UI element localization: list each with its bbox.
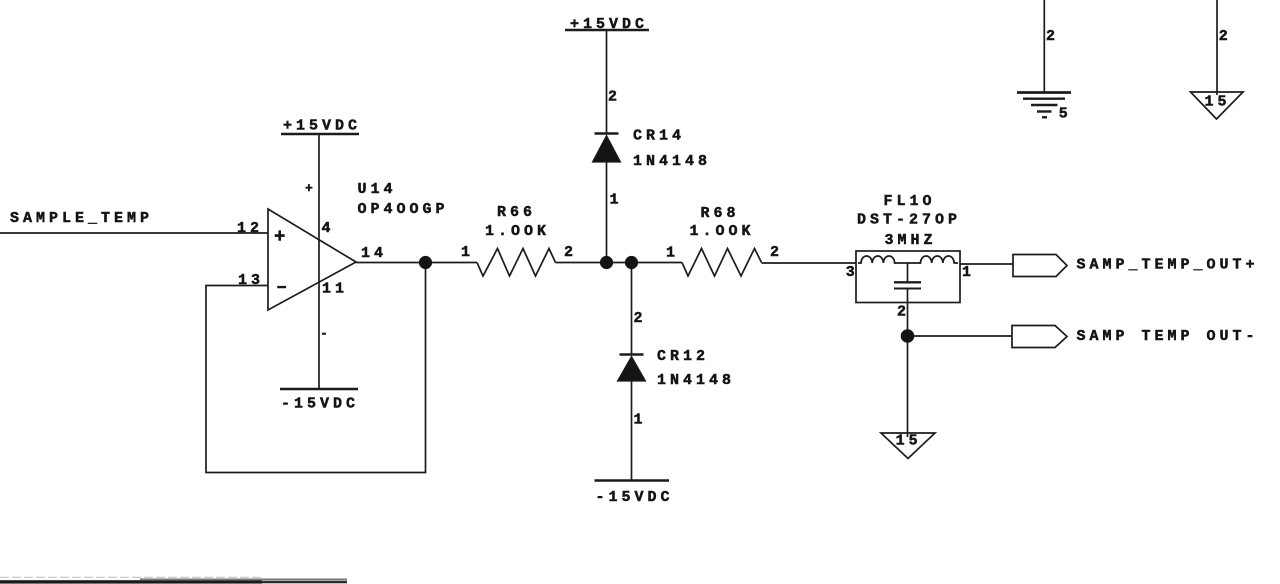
wire CR14 anode down to node xyxy=(606,162,608,263)
svg-text:1: 1 xyxy=(666,245,679,262)
power +15VDC bar (CR14) xyxy=(565,29,649,32)
svg-text:SAMP TEMP OUT-: SAMP TEMP OUT- xyxy=(1077,328,1259,345)
svg-text:+: + xyxy=(305,181,313,196)
wire CR12 anode to -15VDC xyxy=(631,381,633,481)
scan artifact: faint line bottom left xyxy=(0,576,262,578)
power triangle 15 (below FL10) xyxy=(881,433,935,459)
inductor coil 2 inside FL10 xyxy=(920,256,959,263)
svg-text:FL1O: FL1O xyxy=(884,193,936,210)
capacitor plate bottom xyxy=(894,288,921,290)
resistor R66 zigzag xyxy=(477,249,556,277)
diode CR14 triangle xyxy=(593,136,621,163)
wire FL10 pin1 to connector xyxy=(960,263,1013,265)
svg-text:1: 1 xyxy=(461,244,474,261)
wire +15VDC to CR14 cathode xyxy=(606,30,608,134)
svg-text:+15VDC: +15VDC xyxy=(283,118,361,135)
wire between coils and capacitor stub xyxy=(896,262,921,264)
connector SAMP TEMP OUT- pentagon xyxy=(1012,326,1067,348)
wire feedback loop output to inverting input xyxy=(206,263,426,473)
wire op-amp output to node xyxy=(356,262,477,264)
resistor R68 zigzag xyxy=(682,249,762,277)
wire R68 pin2 to FL10 pin3 xyxy=(762,262,857,264)
power triangle 15 (top right) xyxy=(1191,92,1244,119)
svg-text:13: 13 xyxy=(238,272,264,289)
capacitor stub top xyxy=(907,263,909,282)
connector SAMP_TEMP_OUT+ pentagon xyxy=(1013,255,1067,277)
svg-text:DST-27OP: DST-27OP xyxy=(857,212,961,229)
ground 5 bars xyxy=(1017,93,1071,118)
wire top to ground 5 xyxy=(1043,0,1045,93)
wire node to connector SAMP TEMP OUT- xyxy=(908,335,1013,337)
node junction dot CR14 xyxy=(600,256,613,269)
diode CR14 cathode bar xyxy=(595,132,619,135)
wire top to power triangle 15 (top right) xyxy=(1216,0,1218,95)
svg-text:-: - xyxy=(320,326,328,341)
svg-text:15: 15 xyxy=(896,433,922,450)
svg-text:SAMPLE_TEMP: SAMPLE_TEMP xyxy=(10,210,153,227)
svg-text:2: 2 xyxy=(608,89,621,106)
svg-text:R66: R66 xyxy=(497,204,536,221)
svg-text:3MHZ: 3MHZ xyxy=(885,232,937,249)
svg-text:-15VDC: -15VDC xyxy=(281,396,359,413)
wire op-amp power vertical xyxy=(318,134,320,389)
op-amp U1 4 triangle xyxy=(268,209,356,310)
power +15VDC bar (op-amp) xyxy=(281,133,359,136)
svg-text:1: 1 xyxy=(610,192,623,209)
svg-text:+15VDC: +15VDC xyxy=(570,16,648,33)
svg-text:1: 1 xyxy=(634,412,647,429)
scan artifact: thin line bottom xyxy=(140,578,347,580)
svg-text:2: 2 xyxy=(1219,28,1232,45)
svg-text:OP4OOGP: OP4OOGP xyxy=(358,201,449,218)
svg-text:1N4148: 1N4148 xyxy=(633,153,711,170)
svg-text:CR12: CR12 xyxy=(657,348,709,365)
svg-text:4: 4 xyxy=(322,220,335,237)
scan artifact: dark bar bottom left xyxy=(0,580,262,583)
wire SAMPLE_TEMP input to pin 12 xyxy=(0,232,268,234)
svg-text:11: 11 xyxy=(322,281,348,298)
wire node down to CR12 cathode xyxy=(631,263,633,355)
diode CR12 triangle xyxy=(618,357,646,382)
svg-text:2: 2 xyxy=(897,304,910,321)
wire node down to power triangle 15 xyxy=(907,336,909,437)
svg-text:2: 2 xyxy=(564,244,577,261)
svg-text:1.OOK: 1.OOK xyxy=(485,223,550,240)
wire node to R68 pin1 xyxy=(632,262,683,264)
diode CR12 cathode bar xyxy=(620,353,644,356)
svg-text:2: 2 xyxy=(770,244,783,261)
svg-text:2: 2 xyxy=(634,310,647,327)
inductor coil 1 inside FL10 xyxy=(858,256,896,263)
svg-text:1: 1 xyxy=(962,264,975,281)
svg-text:CR14: CR14 xyxy=(633,128,685,145)
wire R66 pin2 to node xyxy=(556,262,632,264)
svg-text:1.OOK: 1.OOK xyxy=(690,223,755,240)
filter FL10 box xyxy=(856,251,960,303)
node junction dot CR12 xyxy=(625,256,638,269)
svg-text:2: 2 xyxy=(1046,28,1059,45)
svg-text:12: 12 xyxy=(237,220,263,237)
power -15VDC bar (op-amp) xyxy=(280,388,358,391)
svg-text:3: 3 xyxy=(846,264,859,281)
node junction dot FL10 pin2 xyxy=(901,329,915,343)
svg-text:U14: U14 xyxy=(358,181,397,198)
node junction dot at op-amp output xyxy=(419,256,432,269)
svg-text:–: – xyxy=(276,276,287,298)
wire capacitor to FL10 pin2 node xyxy=(907,289,909,337)
svg-text:+: + xyxy=(274,226,285,248)
svg-text:14: 14 xyxy=(361,245,387,262)
scan artifact: dark bar right part xyxy=(262,581,347,584)
svg-text:SAMP_TEMP_OUT+: SAMP_TEMP_OUT+ xyxy=(1077,257,1259,274)
capacitor plate top xyxy=(894,281,921,283)
power -15VDC bar (CR12) xyxy=(595,479,670,482)
svg-text:R68: R68 xyxy=(701,205,740,222)
svg-text:-15VDC: -15VDC xyxy=(596,489,674,506)
svg-text:1N4148: 1N4148 xyxy=(657,372,735,389)
svg-text:5: 5 xyxy=(1059,106,1072,123)
svg-text:15: 15 xyxy=(1205,94,1231,111)
